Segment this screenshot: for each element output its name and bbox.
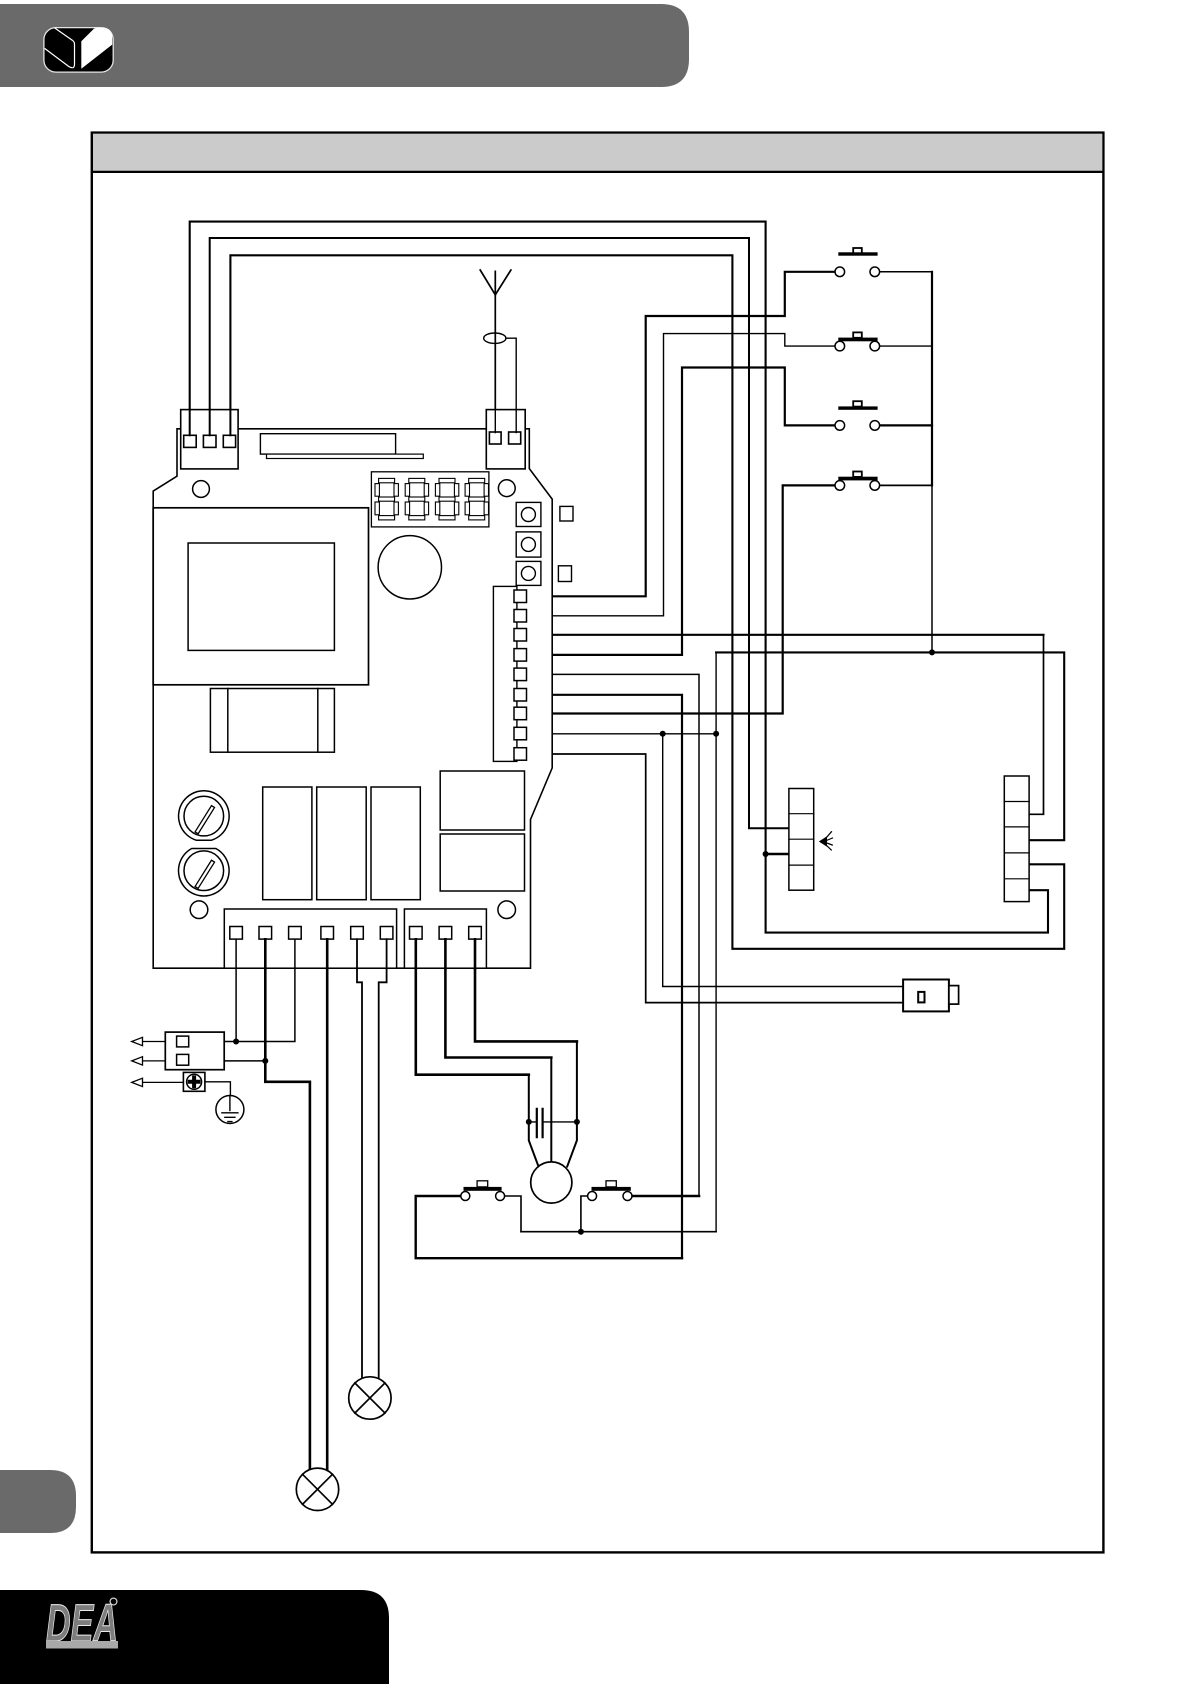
wire stubs: bottom terminal exits M7 M8 M9 (416, 939, 475, 968)
terminal strip M1-M6 outline (224, 909, 396, 968)
wire net P2: header pin2 to button SW2 left contact (527, 334, 836, 616)
wire motor right lead (567, 1041, 577, 1166)
pushbutton SW2 (NC) actuator square (853, 332, 862, 337)
wire net T7: terminal M7 to motor left winding (416, 939, 529, 1074)
lamp L2 (courtesy light) (349, 1377, 391, 1419)
wire motor centre lead (550, 1058, 552, 1162)
wire net T2: terminal M2 down to lamp L1 (265, 939, 310, 1470)
terminal M9 (469, 927, 482, 940)
terminal M4 (321, 927, 334, 940)
wire net P6: header pin6 down to limit switch FC1 left contact (527, 695, 683, 1258)
X2 pin 2 (509, 432, 521, 444)
antenna terminal block X2 (486, 410, 525, 469)
wire stubs: bottom terminal exits M2 (264, 939, 267, 968)
photocell TX strip outline (789, 789, 814, 891)
7-segment display DS1 frame (371, 472, 489, 527)
RX strip divider 2 (1004, 826, 1029, 828)
radio module connector J1 lip (267, 454, 424, 458)
junction dot on common rail (578, 1229, 584, 1235)
wire net W3: terminal X1-3 to RX cell pin4 (230, 255, 1064, 949)
wire FC2 left contact lead down (581, 1196, 588, 1232)
wire bottom loop to FC1 left contact (416, 1196, 682, 1258)
DEA logo (footer) (46, 1594, 118, 1653)
antenna shield lead to pin A2 (506, 338, 516, 432)
earth screw terminal box (183, 1072, 205, 1091)
pushbutton SW1 left contact (835, 267, 845, 277)
radio receiver jack body (903, 980, 949, 1012)
wire net T8: terminal M8 to motor common (445, 939, 551, 1057)
junction dot P8a (660, 731, 666, 737)
pushbutton SW4 (NC) actuator square (853, 472, 862, 477)
junction dot mains L (233, 1039, 239, 1045)
photocell RX strip outline (1004, 776, 1029, 902)
earth symbol circle (216, 1096, 244, 1124)
FC1 right contact (496, 1192, 505, 1201)
transformer TR1 outer (153, 508, 368, 685)
transformer connector divider left (227, 689, 229, 753)
header pin 4 (514, 649, 527, 662)
photocell beam arrow (819, 836, 827, 846)
junction dot on W1 at TX branch (763, 851, 769, 857)
wire branch P8a: down to jack upper lead (663, 734, 904, 987)
wire net T6: terminal M6 down to lamp L2 (379, 939, 387, 1379)
FC1 left contact (461, 1192, 470, 1201)
fuse F1 outer (179, 791, 230, 841)
TX strip divider 2 (789, 838, 814, 840)
pushbutton SW2 left contact (835, 341, 845, 351)
wire net P9: header pin9 to jack lower lead (527, 754, 904, 1003)
frame title band (93, 134, 1102, 171)
7-segment digit 2 (405, 478, 428, 519)
pushbutton SW3 left contact (835, 421, 845, 431)
mains plug connector body (165, 1032, 224, 1070)
board pushbutton PB1 (516, 502, 541, 526)
relay RL3 (371, 787, 420, 900)
power module PM1 (440, 771, 524, 830)
wire net W1: terminal X1-1 loop to TX cell pin3 and RX cell pin5 (190, 222, 1048, 933)
terminal M3 (289, 927, 302, 940)
X1 pin 1 (184, 435, 197, 447)
header pin 2 (514, 610, 527, 623)
X1 pin 2 (203, 435, 216, 447)
header bar (0, 4, 689, 87)
side tab (0, 1470, 76, 1533)
wire FC1 right contact lead down (505, 1196, 521, 1232)
7-segment digit 4 (465, 478, 488, 519)
pushbutton SW4 left contact (835, 481, 845, 491)
plug terminal upper (177, 1036, 189, 1047)
antenna symbol (480, 270, 511, 433)
wire net P8: header pin8 horizontal (527, 733, 717, 735)
junction dot capacitor left (526, 1119, 532, 1125)
terminal M6 (380, 927, 393, 940)
earth wire (205, 1082, 231, 1096)
jack inner slot (918, 992, 924, 1003)
wire button SW1 right lead (880, 271, 932, 273)
fuse F1 slot (195, 806, 214, 834)
fuse F2 inner cap (184, 851, 224, 891)
control board outline (153, 429, 552, 968)
7-segment digit 1 (375, 478, 398, 519)
wire stubs repainted over block fills: X1 pins entries (190, 410, 231, 436)
RX strip divider 4 (1004, 878, 1029, 880)
PB3 cap (521, 566, 535, 580)
RX strip divider 1 (1004, 801, 1029, 803)
footer bar (0, 1590, 389, 1684)
frame title band bottom rule (92, 171, 1104, 173)
pushbutton SW2 bar (838, 338, 877, 342)
wire branch W1a: to TX cell pin3 (766, 853, 789, 855)
TX strip divider 1 (789, 813, 814, 815)
pushbutton SW3 right contact (870, 421, 880, 431)
terminal M5 (351, 927, 364, 940)
board mounting hole top-right (498, 480, 515, 497)
terminal strip M7-M9 outline (404, 909, 486, 968)
terminal M2 (259, 927, 272, 940)
header pin 5 (514, 668, 527, 681)
earth symbol bars (222, 1113, 238, 1122)
pushbutton SW1 bar (838, 252, 877, 255)
mains arrow 1 (132, 1037, 166, 1045)
terminal M8 (439, 927, 452, 940)
jumper pad JP2 (558, 566, 571, 582)
board pushbutton PB3 (516, 561, 541, 585)
junction dot capacitor right (574, 1119, 580, 1125)
wire net W2: terminal X1-2 to TX cell pin2 (210, 238, 789, 828)
wire net P7: header pin7 to button SW4 left contact (527, 485, 836, 713)
header pin 7 (514, 707, 527, 720)
wire net T4: terminal M4 down to lamp L1 (326, 939, 329, 1470)
fuse F2 outer (179, 849, 230, 897)
jumper pad JP1 (560, 506, 573, 521)
header pin 3 (514, 629, 527, 642)
wire net P4: header pin4 to button SW3 left contact (527, 368, 836, 655)
wire motor left lead (529, 1075, 539, 1167)
pushbutton SW4 right contact (870, 481, 880, 491)
transformer TR1 core window (188, 543, 334, 650)
wire branch P8b: vertical through to limit-switch common (715, 652, 717, 1231)
7-segment digit 3 (435, 478, 458, 519)
board mounting hole bottom-right (498, 901, 516, 919)
power module PM2 (440, 834, 524, 891)
pushbutton SW1 (NO) actuator square (853, 248, 862, 253)
pushbutton SW2 right contact (870, 341, 880, 351)
terminal block X1 (aerial wires) (181, 410, 238, 469)
wire stubs: bottom terminal exits M4 (326, 939, 329, 968)
limit switch FC2 bar (592, 1187, 631, 1191)
relay RL1 (263, 787, 312, 900)
wire net P3: header pin3 to RX cell pin2 (527, 634, 1044, 636)
wire limit switch common rail (521, 1231, 716, 1233)
wire net P5: header pin5 down to limit switch FC2 right contact (527, 674, 700, 1196)
diagram frame (92, 133, 1104, 1553)
wire net T5: terminal M5 down to lamp L2 (357, 939, 362, 1379)
relay RL2 (317, 787, 367, 900)
capacitor C1 leads (529, 1121, 577, 1123)
DEA logo mark (header) (44, 28, 113, 73)
limit switch FC1 bar (464, 1187, 502, 1191)
RX strip divider 3 (1004, 852, 1029, 854)
junction dot mains N (262, 1058, 268, 1064)
wire net T9: terminal M9 to motor right winding (475, 939, 577, 1041)
transformer connector block below (210, 689, 334, 753)
pushbutton SW3 (NO) actuator square (853, 401, 862, 406)
wire mains L: terminal M1 to plug connector (235, 939, 237, 1041)
pushbutton SW1 right contact (870, 267, 880, 277)
earth screw head (187, 1074, 202, 1089)
header pin 6 (514, 689, 527, 702)
radio module connector J1 (260, 434, 395, 454)
antenna insulator ellipse (484, 333, 506, 343)
board pushbutton PB2 (516, 532, 541, 557)
wire button SW2 right lead (880, 345, 932, 347)
mains arrow 3 (earth) (132, 1078, 184, 1086)
limit switch FC1 actuator square (477, 1181, 488, 1187)
buzzer / sounder circle (378, 536, 441, 599)
earth screw cross (190, 1077, 199, 1086)
wire branch P8c: across to RX cell pin3 (716, 652, 1064, 840)
wire stubs: antenna block entries (495, 410, 516, 433)
X2 pin 1 (489, 432, 501, 444)
FC2 left contact (588, 1192, 597, 1201)
wire FC2 right contact lead (632, 1195, 699, 1198)
PB2 cap (521, 537, 535, 551)
wire stubs: bottom terminal exits M1-M6 (236, 939, 295, 968)
mains arrow 2 (132, 1057, 166, 1065)
limit switch FC2 actuator square (606, 1181, 616, 1187)
junction dot P8b (713, 731, 719, 737)
wire button bus: SW right contacts common (931, 272, 933, 486)
fuse F1 inner cap (184, 796, 224, 836)
PB1 cap (521, 508, 535, 522)
terminal M7 (410, 927, 423, 940)
board mounting hole bottom-left (190, 901, 208, 919)
header pin 9 (514, 748, 527, 761)
earth symbol stem (229, 1096, 231, 1111)
motor M circle (531, 1162, 572, 1203)
wire mains N: plug connector lower lead (224, 1060, 265, 1062)
transformer connector divider right (317, 689, 319, 753)
wire button SW4 right lead (880, 484, 932, 486)
terminal M1 (230, 927, 243, 940)
pin header J2 outline (493, 586, 517, 761)
TX strip divider 3 (789, 864, 814, 866)
capacitor C1 plates (537, 1109, 543, 1137)
wire button SW3 right lead (880, 424, 932, 426)
jack tip tab (949, 986, 959, 1005)
plug terminal lower (177, 1054, 189, 1065)
header pin 1 (514, 590, 527, 603)
header pin 8 (514, 727, 527, 740)
fuse F2 slot (195, 860, 214, 888)
junction dot button bus on P8c (929, 649, 935, 655)
wire mains L2: terminal M3 to plug connector (224, 939, 295, 1041)
lamp L1 (flashing light) (296, 1468, 338, 1510)
X1 pin 3 (223, 435, 235, 447)
wire stubs: bottom terminal exits M5 M6 (357, 939, 387, 968)
board mounting hole top-left (193, 481, 210, 498)
pushbutton SW3 bar (838, 406, 877, 409)
FC2 right contact (623, 1192, 632, 1201)
pushbutton SW4 bar (838, 477, 877, 481)
wire net P1: header pin1 to button SW1 left contact (527, 272, 836, 597)
